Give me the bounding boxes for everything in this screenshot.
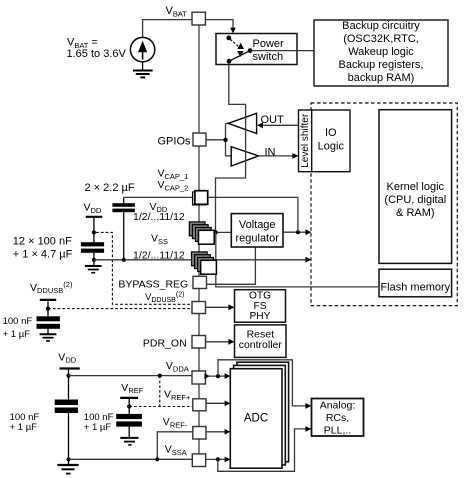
- svg-text:PLL,..: PLL,..: [324, 424, 351, 436]
- svg-text:Flash memory: Flash memory: [380, 282, 450, 294]
- buffer IN triangle: [231, 147, 258, 166]
- pin VBAT: [192, 12, 205, 25]
- svg-text:OUT: OUT: [261, 114, 285, 126]
- voltage regulator box: [231, 214, 283, 247]
- ground under VDD cap: [85, 266, 102, 273]
- wire VSSA line: [69, 458, 193, 460]
- svg-text:+ 1 µF: + 1 µF: [10, 422, 38, 433]
- node VDDA supply: [66, 374, 70, 378]
- svg-text:(OSC32K,RTC,: (OSC32K,RTC,: [343, 33, 419, 45]
- wire VREF+ to ADC: [206, 402, 227, 404]
- buffer OUT triangle: [228, 113, 256, 133]
- ground under VREF cap: [120, 438, 138, 445]
- dashed wire VDDA to VREF+: [159, 376, 161, 407]
- switch symbol inside power switch: [226, 36, 252, 64]
- wire cap to VCAP pin: [124, 196, 195, 198]
- svg-text:BYPASS_REG: BYPASS_REG: [118, 278, 188, 290]
- wire VREF- to ADC: [206, 431, 227, 433]
- wire PDR_ON to reset controller: [206, 341, 231, 343]
- svg-text:Wakeup logic: Wakeup logic: [348, 46, 414, 58]
- svg-text:IO: IO: [325, 127, 337, 139]
- svg-text:+ 1 µF: + 1 µF: [3, 329, 31, 340]
- ground under VDDUSB cap: [40, 334, 57, 341]
- node regulator output: [296, 230, 300, 234]
- supply bar VREF: [120, 397, 138, 399]
- supply bar VDD lower: [60, 367, 80, 369]
- svg-text:+ 1 × 4.7 µF: + 1 × 4.7 µF: [13, 249, 73, 261]
- wire battery to VBAT pin: [143, 20, 192, 38]
- dashed wire VDDUSB supply to pin: [48, 308, 192, 310]
- wire VDDA supply to pin: [69, 375, 193, 377]
- node VREF- ground: [155, 457, 159, 461]
- node 2.2uF cap ground: [122, 258, 126, 262]
- pin VDD stacked: [189, 222, 214, 244]
- svg-text:Logic: Logic: [318, 141, 345, 153]
- wire VSSA wrap to analog: [218, 429, 308, 471]
- svg-text:12 × 100 nF: 12 × 100 nF: [13, 236, 72, 248]
- svg-text:Analog:: Analog:: [320, 399, 356, 411]
- svg-text:Level shifter: Level shifter: [300, 113, 311, 168]
- wire VDD to flash memory: [216, 232, 379, 287]
- power switch box U-PS: [216, 34, 297, 65]
- level shifter box: [299, 110, 312, 172]
- svg-text:Voltage: Voltage: [239, 219, 276, 231]
- wire BYPASS_REG to regulator bottom: [207, 247, 256, 284]
- kernel logic box: [379, 110, 452, 264]
- pin VCAP_1/2 stacked: [193, 192, 206, 205]
- dashed peripheral box: [311, 103, 457, 306]
- pin BYPASS_REG: [193, 276, 207, 288]
- wire regulator output to kernel with arrow: [283, 231, 308, 233]
- wire VDD pins to regulator: [213, 231, 231, 233]
- wire VREF- to ground line: [157, 432, 193, 460]
- svg-text:IN: IN: [265, 146, 276, 158]
- svg-text:controller: controller: [239, 339, 283, 351]
- node VDDA junction: [216, 374, 220, 378]
- ADC stacked blocks: [237, 362, 289, 462]
- node cap ground: [92, 258, 96, 262]
- reset controller box: [235, 325, 287, 358]
- capacitor 12x100nF: [81, 242, 104, 265]
- backup circuitry box: [314, 20, 448, 86]
- svg-text:ADC: ADC: [244, 413, 268, 425]
- capacitor 100nF VDD lower: [55, 400, 78, 460]
- dashed wire VDD to VDDUSB pin: [96, 232, 192, 304]
- svg-text:Power: Power: [253, 38, 285, 50]
- capacitor VDDUSB: [37, 316, 60, 334]
- svg-text:GPIOs: GPIOs: [158, 136, 192, 148]
- wire GPIO pin to buffers: [206, 139, 226, 141]
- svg-text:RCs,: RCs,: [326, 412, 349, 424]
- pin VDDUSB: [192, 302, 206, 314]
- node VDD: [92, 230, 96, 234]
- wire VDDUSB pin to OTG PHY: [206, 306, 231, 308]
- IO logic box: [312, 110, 350, 172]
- svg-text:PHY: PHY: [250, 311, 271, 322]
- pin GPIOs: [193, 133, 206, 146]
- wire OUT with arrow: [262, 124, 299, 126]
- svg-text:Backup circuitry: Backup circuitry: [342, 20, 420, 32]
- arrow after VDDA pin: [204, 373, 210, 379]
- capacitor 2x2.2uF: [112, 197, 134, 259]
- main pin rail: [198, 25, 200, 456]
- svg-text:OTG: OTG: [249, 290, 271, 301]
- svg-text:100 nF: 100 nF: [3, 316, 33, 327]
- flash memory box: [379, 269, 452, 297]
- svg-text:2 × 2.2 µF: 2 × 2.2 µF: [85, 182, 135, 194]
- node GPIO junction: [223, 138, 227, 142]
- wire ground line to VSS pins: [94, 259, 308, 261]
- wire power switch down to buffers and rail: [216, 65, 246, 233]
- svg-text:1.65 to 3.6V: 1.65 to 3.6V: [67, 48, 127, 60]
- pin VREF+: [193, 399, 206, 411]
- pin VSSA: [192, 454, 205, 467]
- current source battery symbol: [130, 37, 154, 61]
- node VSSA ground: [66, 457, 70, 461]
- OTG FS PHY box: [235, 290, 286, 323]
- wire IN with arrow: [259, 155, 295, 157]
- svg-text:regulator: regulator: [235, 233, 279, 245]
- node VSSA junction: [216, 457, 220, 461]
- node VREF+ branch: [158, 374, 162, 378]
- wire VDDA wrap to analog: [218, 360, 307, 406]
- pin PDR_ON: [192, 336, 206, 349]
- svg-text:(CPU, digital: (CPU, digital: [384, 194, 446, 206]
- svg-text:Kernel logic: Kernel logic: [387, 181, 445, 193]
- node VREF: [127, 404, 131, 408]
- wire VBAT pin to power switch: [205, 20, 233, 29]
- supply bar VDD: [86, 216, 102, 218]
- wire VSSA to ADC: [206, 458, 227, 460]
- svg-text:Backup registers,: Backup registers,: [339, 59, 424, 71]
- node VDD stack junction: [214, 230, 218, 234]
- analog block box: [312, 399, 364, 437]
- pin VDDA: [192, 371, 206, 384]
- svg-text:+ 1 µF: + 1 µF: [84, 422, 112, 433]
- svg-text:PDR_ON: PDR_ON: [143, 337, 187, 349]
- svg-text:backup RAM): backup RAM): [348, 72, 415, 84]
- supply bar VDDUSB: [40, 299, 56, 301]
- pin VSS stacked: [192, 252, 217, 274]
- svg-text:1/2/...11/12: 1/2/...11/12: [133, 211, 185, 223]
- pin VREF-: [193, 427, 206, 440]
- svg-text:1/2/...11/12: 1/2/...11/12: [133, 249, 185, 261]
- ground under VSSA: [57, 459, 78, 473]
- svg-text:& RAM): & RAM): [396, 207, 435, 219]
- wire regulator output to VCAP pin: [208, 197, 298, 232]
- svg-text:FS: FS: [253, 301, 266, 312]
- svg-text:switch: switch: [253, 51, 284, 63]
- ground under battery: [133, 62, 153, 78]
- wire power switch to backup circuitry: [252, 50, 314, 52]
- node VDDUSB supply: [46, 307, 50, 311]
- capacitor 100nF VREF: [116, 414, 142, 438]
